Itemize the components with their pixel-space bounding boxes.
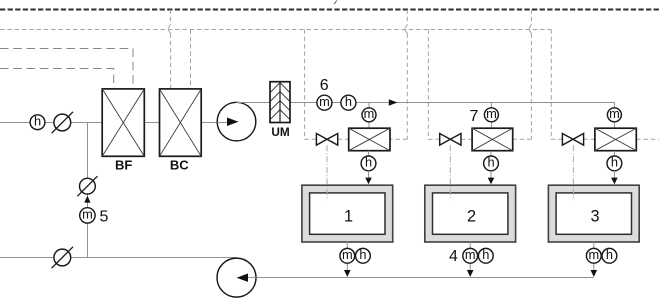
wire: dashed signal line C to BF — [0, 69, 114, 89]
heater coil 1 — [349, 128, 390, 151]
sensor h (left) — [30, 114, 45, 130]
sensor m (room2 exhaust) — [463, 247, 478, 263]
valve V1 — [316, 133, 337, 145]
arrow room3 exhaust — [591, 270, 598, 277]
svg-text:m: m — [609, 106, 620, 121]
wire: dashed valve1-coil1 link — [338, 138, 349, 140]
svg-text:h: h — [606, 247, 613, 262]
svg-text:BC: BC — [170, 157, 189, 172]
sensor h (supply duct) — [341, 94, 356, 110]
svg-text:m: m — [486, 106, 497, 121]
valve V2 — [440, 133, 461, 145]
svg-text:m: m — [465, 247, 476, 262]
wire: stub to sensor m3 — [613, 122, 615, 128]
damper (crossed circle, left) — [52, 112, 73, 133]
room 2 — [425, 185, 516, 242]
svg-text:m: m — [364, 106, 375, 121]
room 3 — [548, 185, 639, 242]
sensor m1 — [362, 106, 376, 122]
svg-text:m: m — [319, 94, 330, 109]
svg-text:h: h — [345, 94, 352, 109]
sensor h (room1 exhaust) — [356, 247, 371, 263]
wire: dashed signal line A — [0, 29, 551, 31]
svg-text:6: 6 — [320, 77, 329, 94]
wire: return duct line — [256, 277, 594, 279]
wire: dashed supply drop unit 2 — [428, 30, 440, 140]
supply fan — [217, 102, 256, 141]
wire: room1 exhaust — [346, 241, 348, 270]
arrow room2 exhaust — [467, 270, 474, 277]
sensor m (recirculation) — [80, 207, 95, 223]
damper (crossed circle, recirculation) — [77, 176, 97, 196]
sensor h (room3 exhaust) — [602, 247, 617, 263]
wire: coil2 to sensor h2 — [490, 151, 492, 156]
return fan — [217, 258, 257, 297]
room 1 — [302, 185, 393, 242]
wire: room3 exhaust — [593, 241, 595, 270]
wire: h2 to room2 with arrow — [490, 171, 492, 178]
wire: thick dashed control bus (top) — [0, 8, 659, 10]
sensor h3 — [607, 155, 622, 171]
arrow on supply duct — [389, 99, 398, 105]
node tick on top bus — [334, 1, 337, 5]
svg-text:h: h — [611, 155, 618, 170]
svg-text:UM: UM — [271, 125, 290, 139]
svg-text:h: h — [482, 247, 489, 262]
svg-text:5: 5 — [99, 209, 108, 226]
heater coil 3 — [595, 128, 636, 151]
wire: dash-dot control link valve3-room3 — [572, 145, 574, 200]
wire: dash-dot control link valve2-room2 — [449, 145, 451, 200]
wire: h1 to room1 with arrow — [368, 171, 370, 178]
svg-text:4: 4 — [449, 248, 458, 265]
wire: dashed signal line B to BF — [0, 49, 133, 89]
wire: stub to sensor m2 — [490, 103, 492, 108]
svg-text:BF: BF — [115, 157, 132, 172]
node jog at line A crossing x=407.3 — [405, 25, 408, 34]
heater coil 2 — [472, 128, 513, 151]
svg-text:h: h — [359, 247, 366, 262]
sensor m (supply duct) — [317, 94, 332, 110]
node jog at line A crossing x=170.6 — [168, 25, 171, 34]
svg-text:2: 2 — [467, 207, 476, 225]
sensor h2 — [484, 155, 499, 171]
sensor h (room2 exhaust) — [478, 247, 493, 263]
wire: dashed valve3-coil3 link — [583, 138, 595, 140]
humidifier UM — [270, 82, 290, 140]
arrow up to damper — [84, 196, 90, 203]
coil BC — [160, 89, 202, 172]
sensor m2 — [484, 106, 498, 122]
svg-text:h: h — [34, 114, 41, 129]
svg-text:3: 3 — [590, 207, 599, 225]
arrow room1 exhaust — [344, 270, 351, 277]
wire: dashed supply drop unit 3 — [551, 30, 562, 140]
wire: coil1 to sensor h1 — [368, 151, 370, 156]
wire: dash-dot control link valve1-room1 — [326, 145, 328, 200]
sensor m (room1 exhaust) — [340, 247, 355, 263]
wire: dashed supply drop unit 1 — [305, 30, 317, 140]
wire: main supply air line (left) — [0, 122, 225, 124]
sensor m3 — [607, 106, 621, 122]
svg-text:m: m — [82, 207, 93, 222]
wire: stub to sensor m1 — [368, 103, 370, 108]
wire: vertical branch at node x=87.4 — [87, 123, 89, 258]
svg-text:h: h — [487, 155, 494, 170]
wire: coil3 to sensor h3 — [613, 151, 615, 156]
wire: room2 exhaust — [469, 241, 471, 270]
wire: return line to outside (bottom left) — [0, 257, 237, 259]
wire: dashed drop from line A to BC — [190, 30, 192, 89]
svg-text:h: h — [365, 155, 372, 170]
filter BF — [102, 89, 144, 172]
wire: dashed drop from top bus to BC — [170, 10, 172, 89]
svg-text:1: 1 — [344, 207, 353, 225]
svg-text:7: 7 — [470, 108, 479, 125]
wire: dashed valve2-coil2 link — [461, 138, 472, 140]
svg-text:m: m — [588, 247, 599, 262]
node jog at line A crossing x=531.4 — [529, 25, 532, 34]
sensor h1 — [361, 155, 376, 171]
valve V3 — [562, 133, 583, 145]
svg-text:m: m — [342, 247, 353, 262]
wire: supply duct line from fan top — [237, 103, 615, 108]
wire: dashed return riser unit 1 — [390, 10, 407, 140]
damper (crossed circle, bottom left) — [52, 247, 73, 268]
wire: dashed return riser unit 2 — [513, 10, 532, 140]
wire: h3 to room3 with arrow — [613, 171, 615, 178]
sensor m (room3 exhaust) — [586, 247, 601, 263]
wire: dashed return unit 3 to right edge — [636, 138, 659, 140]
